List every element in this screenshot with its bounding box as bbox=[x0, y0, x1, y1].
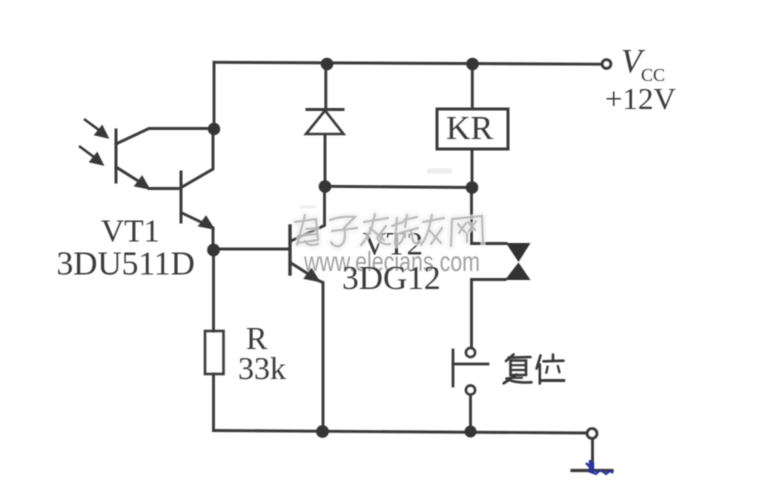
svg-text:3DU511D: 3DU511D bbox=[57, 246, 195, 283]
svg-text:+12V: +12V bbox=[605, 81, 676, 116]
svg-text:3DG12: 3DG12 bbox=[342, 260, 441, 297]
svg-text:KR: KR bbox=[446, 110, 494, 147]
svg-text:VT1: VT1 bbox=[101, 213, 160, 249]
svg-text:33k: 33k bbox=[238, 350, 286, 386]
